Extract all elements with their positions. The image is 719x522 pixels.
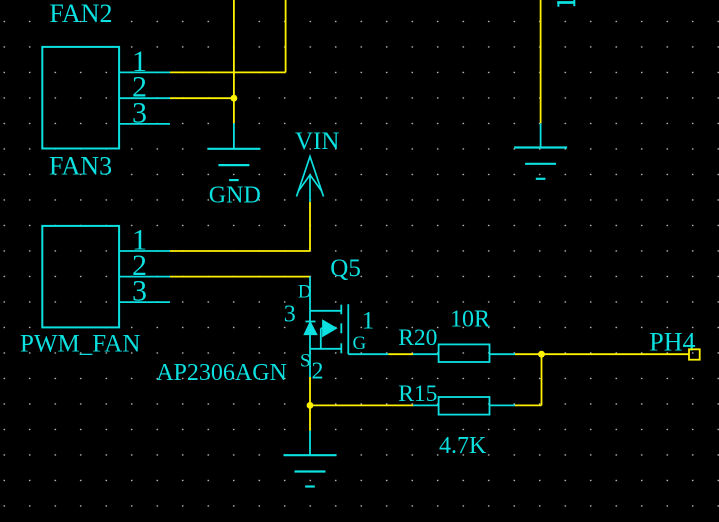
svg-text:FAN3: FAN3 bbox=[49, 152, 112, 181]
ground (top right) bbox=[540, 123, 542, 147]
svg-text:Q5: Q5 bbox=[330, 255, 361, 282]
PWM_FAN pin 3 bbox=[119, 301, 170, 303]
wire PWM_FAN pin1 horizontal bbox=[170, 250, 310, 252]
wire corner up to R20 node bbox=[541, 354, 543, 405]
wire source node to ground bbox=[309, 405, 311, 430]
wire junction at source node bbox=[307, 402, 314, 409]
port PH4 square bbox=[689, 349, 700, 359]
resistor R15 bbox=[413, 397, 515, 415]
svg-text:FAN2: FAN2 bbox=[49, 0, 112, 28]
svg-text:GND: GND bbox=[209, 183, 261, 209]
wire vertical to top edge at x=285.6 bbox=[285, 0, 287, 72]
wire vertical from top edge at x=233.9 bbox=[233, 0, 235, 98]
wire R15 right to corner bbox=[515, 404, 542, 406]
wire VIN to PWM_FAN pin1 vertical bbox=[309, 202, 311, 251]
wire Q5 source down bbox=[309, 377, 311, 405]
svg-text:1: 1 bbox=[362, 307, 375, 334]
svg-text:S: S bbox=[300, 351, 311, 372]
wire FAN3 pin1 horizontal bbox=[170, 71, 286, 73]
wire vertical from top edge at x=540.6 bbox=[540, 0, 542, 123]
connector PWM_FAN body bbox=[42, 226, 119, 328]
svg-text:G: G bbox=[353, 333, 367, 354]
resistor R20 bbox=[413, 344, 515, 362]
wire junction to GND lead bbox=[233, 98, 235, 123]
ground GND (left) bbox=[233, 123, 235, 149]
wire junction at R20/R15/PH4 node bbox=[538, 351, 545, 358]
svg-text:R15: R15 bbox=[398, 381, 437, 407]
FAN3 pin 3 bbox=[119, 123, 170, 125]
wire PWM_FAN pin2 to Q5 drain bbox=[170, 276, 310, 278]
ground (bottom) bbox=[309, 431, 311, 456]
wire junction at FAN3 pin2 node bbox=[231, 95, 238, 102]
transistor Q5 symbol (N-MOSFET) bbox=[305, 277, 389, 377]
svg-text:D: D bbox=[298, 282, 312, 303]
svg-text:PWM_FAN: PWM_FAN bbox=[20, 331, 140, 358]
svg-text:3: 3 bbox=[132, 275, 147, 308]
PWM_FAN pin 1 bbox=[119, 250, 170, 252]
FAN3 pin 1 bbox=[119, 71, 170, 73]
svg-text:3: 3 bbox=[284, 302, 296, 328]
wire FAN3 pin2 horizontal bbox=[170, 97, 234, 99]
connector FAN3 body bbox=[42, 47, 119, 149]
power port VIN arrow bbox=[297, 157, 324, 202]
wire source node to R15 bbox=[310, 404, 413, 406]
svg-text:3: 3 bbox=[132, 96, 147, 129]
svg-text:10R: 10R bbox=[450, 306, 490, 332]
wire junction to port PH4 bbox=[542, 353, 690, 355]
svg-text:VIN: VIN bbox=[295, 128, 339, 155]
FAN3 pin 2 bbox=[119, 97, 170, 99]
svg-text:4.7K: 4.7K bbox=[439, 433, 487, 459]
wire R20 right to junction bbox=[515, 353, 542, 355]
partial pin number 1 of off-screen part (top right) bbox=[557, 0, 575, 7]
PWM_FAN pin 2 bbox=[119, 276, 170, 278]
wire Q5 gate to R20 bbox=[388, 353, 413, 355]
svg-text:AP2306AGN: AP2306AGN bbox=[156, 360, 287, 386]
svg-text:2: 2 bbox=[312, 359, 324, 385]
svg-text:R20: R20 bbox=[398, 325, 437, 351]
